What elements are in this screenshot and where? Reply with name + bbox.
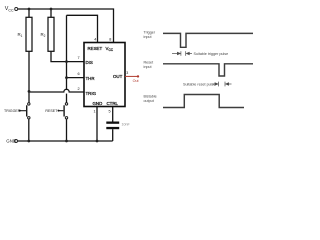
junction node reset net / DIS — [65, 60, 68, 63]
svg-text:7: 7 — [78, 56, 80, 60]
svg-text:GND: GND — [6, 139, 16, 144]
terminal trigger — [19, 110, 21, 112]
switch trigger button contacts — [28, 103, 30, 105]
node output arrow dot — [137, 75, 139, 77]
annotation suitable reset pulse arrows — [213, 82, 232, 87]
resistor R2 — [48, 17, 54, 51]
switch reset actuator bar — [63, 105, 64, 116]
terminal GND — [15, 140, 18, 143]
wire reset terminal stub — [59, 110, 63, 112]
junction node trigger — [28, 90, 31, 93]
wire jumper to pin 4 — [67, 15, 98, 42]
wire reset net vertical below hop — [66, 94, 68, 103]
resistor R1 — [26, 17, 32, 51]
svg-text:Reset: Reset — [144, 60, 154, 64]
Vcc supply rail wire — [18, 9, 114, 43]
wire R1 bottom to trigger junction — [28, 51, 30, 102]
switch trigger actuator bar — [26, 105, 27, 116]
junction node R1/rail — [28, 8, 31, 11]
wire R2 bottom — [51, 51, 84, 61]
waveform trigger input — [163, 33, 253, 47]
junction node trigger button / ground — [27, 140, 30, 143]
wire CTRL pin 5 to capacitor — [112, 107, 114, 122]
svg-text:Suitable reset pulse: Suitable reset pulse — [183, 82, 215, 86]
svg-text:GND: GND — [93, 101, 103, 106]
wire trigger terminal stub — [21, 110, 27, 112]
svg-text:3: 3 — [126, 71, 128, 75]
svg-text:Suitable trigger pulse: Suitable trigger pulse — [194, 52, 229, 56]
svg-text:input: input — [144, 35, 152, 39]
svg-text:Trigger: Trigger — [144, 30, 156, 34]
svg-text:8: 8 — [109, 38, 111, 42]
op 555 IC U1 body — [84, 43, 125, 107]
svg-text:5: 5 — [109, 110, 111, 114]
wire R2 top — [50, 9, 52, 17]
svg-text:THR: THR — [86, 76, 95, 81]
wire output pin 3 red — [125, 75, 137, 77]
svg-text:TRIG: TRIG — [86, 91, 97, 96]
junction node R2/rail — [50, 8, 53, 11]
svg-text:CTRL: CTRL — [107, 101, 119, 106]
waveform bistable output — [163, 95, 244, 108]
svg-text:OUT: OUT — [113, 74, 123, 79]
svg-text:TRIGGER: TRIGGER — [4, 109, 21, 113]
annotation suitable trigger pulse arrows — [172, 51, 192, 56]
junction node reset net / THR — [65, 76, 68, 79]
svg-text:6: 6 — [78, 72, 80, 76]
wire capacitor bottom to ground — [112, 129, 114, 141]
junction node pin1 / ground — [96, 140, 99, 143]
svg-text:DIS: DIS — [86, 60, 93, 65]
svg-text:4: 4 — [94, 38, 96, 42]
wire R1 top — [28, 9, 30, 17]
wire TRIG with hop over reset net — [29, 89, 84, 92]
wire reset button to ground — [66, 119, 68, 141]
svg-text:1: 1 — [94, 110, 96, 114]
wire trigger button to ground — [28, 119, 30, 141]
switch reset button contacts — [65, 103, 67, 105]
ground rail wire — [18, 140, 113, 142]
svg-text:Bistable: Bistable — [144, 94, 157, 98]
svg-text:output: output — [144, 99, 154, 103]
svg-text:Out: Out — [133, 79, 139, 83]
terminal Vcc — [15, 8, 18, 11]
svg-text:RESET: RESET — [88, 46, 103, 51]
waveform reset input — [163, 64, 253, 76]
svg-text:10nF: 10nF — [122, 122, 131, 126]
capacitor C1 plates — [106, 122, 119, 124]
svg-text:RESET: RESET — [45, 109, 58, 113]
terminal reset — [58, 110, 60, 112]
svg-text:input: input — [144, 65, 152, 69]
svg-text:2: 2 — [78, 87, 80, 91]
wire GND pin 1 — [96, 107, 98, 142]
wire reset net vertical — [66, 15, 68, 90]
wire THR stub pin 6 — [67, 77, 84, 79]
junction node reset button / ground — [65, 140, 68, 143]
